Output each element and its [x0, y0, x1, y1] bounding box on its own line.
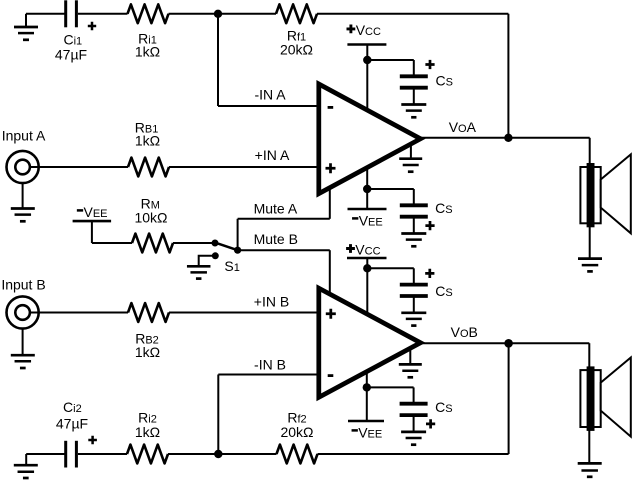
svg-text:47µF: 47µF: [56, 415, 88, 431]
svg-text:Mute B: Mute B: [254, 231, 298, 247]
svg-text:47µF: 47µF: [55, 46, 87, 62]
svg-text:20kΩ: 20kΩ: [280, 42, 313, 58]
svg-text:20kΩ: 20kΩ: [280, 424, 313, 440]
svg-text:1kΩ: 1kΩ: [135, 44, 160, 60]
svg-text:Input A: Input A: [2, 128, 46, 144]
svg-text:1kΩ: 1kΩ: [135, 424, 160, 440]
svg-text:10kΩ: 10kΩ: [134, 209, 167, 225]
svg-text:1kΩ: 1kΩ: [135, 344, 160, 360]
svg-text:-IN B: -IN B: [254, 356, 286, 372]
svg-text:-IN A: -IN A: [254, 87, 286, 103]
svg-text:Mute A: Mute A: [254, 201, 298, 217]
svg-text:1kΩ: 1kΩ: [135, 133, 160, 149]
svg-text:+IN B: +IN B: [254, 294, 289, 310]
svg-text:+IN A: +IN A: [255, 147, 290, 163]
svg-text:Input B: Input B: [1, 277, 45, 293]
